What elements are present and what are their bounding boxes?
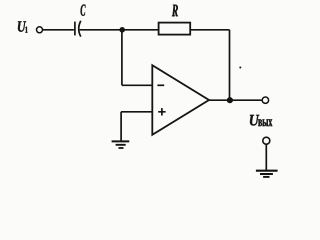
node U1 subscript 1 <box>25 27 27 33</box>
output terminal circle <box>262 97 268 103</box>
op-amp inverting input minus sign <box>157 84 164 86</box>
ground symbol left bar2 <box>116 144 126 146</box>
wire ground terminal to ground <box>265 144 267 170</box>
op-amp U1 triangle <box>152 65 209 135</box>
wire input to capacitor <box>43 29 74 31</box>
ground symbol left bar3 <box>119 147 124 149</box>
ground symbol right bar3 <box>263 176 269 178</box>
wire to op-amp inverting input <box>122 84 152 86</box>
ground symbol right bar2 <box>260 173 273 175</box>
op-amp noninverting input plus sign <box>158 108 165 115</box>
node Uout subscript vyh <box>258 119 272 126</box>
wire node A down to inverting input <box>121 30 123 86</box>
junction node A <box>119 27 125 33</box>
wire capacitor to node A <box>80 29 123 31</box>
output junction node <box>227 97 233 103</box>
capacitor C value label <box>81 5 86 16</box>
input terminal circle <box>37 27 43 33</box>
node Uout label <box>250 115 259 126</box>
wire noninverting input down to ground <box>120 112 122 141</box>
ground symbol right bar1 <box>256 170 278 172</box>
wire resistor to top-right corner <box>190 29 229 31</box>
resistor R value label <box>172 5 178 17</box>
wire op-amp noninverting input <box>121 111 152 113</box>
capacitor C right curved plate <box>79 21 81 37</box>
capacitor C left plate <box>74 22 76 36</box>
wire feedback vertical <box>229 30 231 100</box>
stray mark <box>239 67 241 69</box>
ground symbol left bar1 <box>112 140 130 142</box>
wire op-amp output <box>209 99 262 101</box>
ground terminal circle <box>263 137 270 144</box>
resistor R body <box>159 23 191 35</box>
node U1 label <box>18 21 26 31</box>
wire node A to resistor <box>122 29 158 31</box>
